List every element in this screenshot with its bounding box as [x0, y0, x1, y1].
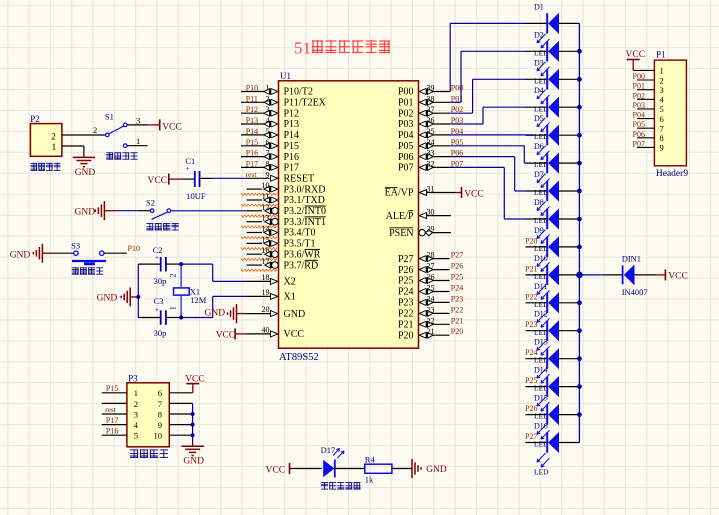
svg-text:D2: D2: [534, 30, 544, 39]
svg-text:GND: GND: [183, 457, 204, 467]
svg-text:EA: EA: [385, 188, 399, 199]
svg-text:P04: P04: [398, 130, 414, 141]
svg-text:P02: P02: [633, 91, 645, 100]
svg-text:35: 35: [427, 127, 435, 136]
svg-text:P: P: [408, 211, 414, 222]
svg-text:1k: 1k: [365, 475, 374, 485]
svg-text:P01: P01: [633, 82, 645, 91]
svg-text:24: 24: [427, 294, 435, 303]
svg-text:D10: D10: [534, 254, 548, 263]
svg-text:P21: P21: [525, 264, 537, 273]
svg-text:P10: P10: [246, 84, 258, 93]
svg-text:5: 5: [266, 127, 270, 136]
svg-text:GND: GND: [205, 309, 226, 319]
svg-text:D5: D5: [534, 114, 544, 123]
svg-text:VCC: VCC: [626, 50, 646, 60]
svg-text:18: 18: [262, 273, 270, 282]
svg-text:10: 10: [154, 431, 163, 441]
svg-text:P03: P03: [633, 101, 645, 110]
svg-text:D4: D4: [534, 86, 544, 95]
svg-text:X1: X1: [284, 292, 296, 303]
svg-text:10UF: 10UF: [186, 191, 206, 201]
svg-text:9: 9: [158, 420, 162, 430]
svg-text:1: 1: [660, 66, 664, 76]
svg-text:D3: D3: [534, 58, 544, 67]
svg-text:IN4007: IN4007: [622, 287, 648, 297]
svg-text:D1: D1: [534, 2, 544, 11]
svg-text:P23: P23: [398, 298, 414, 309]
svg-text:P24: P24: [451, 284, 463, 293]
svg-text:P25: P25: [525, 376, 537, 385]
svg-text:RESET: RESET: [284, 174, 315, 185]
svg-text:20: 20: [262, 305, 270, 314]
svg-text:P13: P13: [284, 119, 300, 130]
svg-text:39: 39: [427, 84, 435, 93]
svg-text:8: 8: [266, 159, 270, 168]
svg-text:P07: P07: [398, 163, 414, 174]
svg-text:P02: P02: [398, 108, 414, 119]
svg-text:33: 33: [427, 149, 435, 158]
svg-text:22: 22: [427, 316, 435, 325]
svg-text:4: 4: [134, 420, 139, 430]
svg-text:P10/T2: P10/T2: [284, 87, 313, 98]
svg-text:D6: D6: [534, 142, 544, 151]
svg-text:P26: P26: [451, 262, 463, 271]
svg-text:P3.2/: P3.2/: [284, 206, 305, 217]
svg-text:GND: GND: [97, 294, 118, 304]
svg-text:P17: P17: [106, 416, 118, 425]
svg-text:3: 3: [660, 85, 664, 95]
svg-text:VCC: VCC: [464, 189, 484, 199]
svg-text:D17: D17: [321, 445, 336, 455]
svg-text:P2: P2: [30, 114, 40, 124]
svg-text:D14: D14: [534, 366, 548, 375]
svg-text:VCC: VCC: [162, 122, 182, 132]
svg-text:P22: P22: [525, 292, 537, 301]
svg-text:12M: 12M: [190, 295, 207, 305]
svg-text:P17: P17: [246, 159, 258, 168]
svg-text:P16: P16: [246, 149, 258, 158]
svg-text:31: 31: [427, 185, 435, 194]
svg-text:21: 21: [427, 327, 435, 336]
svg-text:U1: U1: [280, 71, 291, 81]
svg-text:S2: S2: [146, 198, 155, 208]
svg-text:P20: P20: [525, 236, 537, 245]
svg-text:2: 2: [51, 132, 56, 142]
svg-text:7: 7: [660, 124, 664, 134]
svg-text:P27: P27: [451, 251, 463, 260]
svg-text:27: 27: [427, 262, 435, 271]
svg-text:GND: GND: [284, 309, 306, 320]
svg-text:P3.0/RXD: P3.0/RXD: [284, 184, 326, 195]
svg-text:28: 28: [427, 251, 435, 260]
svg-text:D12: D12: [534, 310, 548, 319]
svg-text:P23: P23: [525, 320, 537, 329]
svg-text:DIN1: DIN1: [622, 253, 641, 263]
svg-text:32: 32: [427, 159, 435, 168]
svg-text:P10: P10: [128, 244, 140, 253]
svg-text:P3.5/T1: P3.5/T1: [284, 239, 316, 250]
svg-text:6: 6: [266, 138, 270, 147]
svg-text:6: 6: [660, 114, 664, 124]
svg-text:30p: 30p: [154, 328, 167, 338]
svg-text:25: 25: [427, 284, 435, 293]
svg-text:D16: D16: [534, 422, 548, 431]
svg-text:P14: P14: [246, 127, 258, 136]
svg-text:9: 9: [660, 143, 664, 153]
svg-text:10: 10: [262, 181, 270, 190]
svg-text:P21: P21: [451, 316, 463, 325]
svg-text:D7: D7: [534, 170, 544, 179]
svg-text:30p: 30p: [154, 276, 167, 286]
svg-text:3: 3: [136, 115, 140, 125]
svg-text:P23: P23: [451, 294, 463, 303]
svg-text:ALE/: ALE/: [386, 211, 408, 222]
svg-text:14: 14: [262, 225, 270, 234]
svg-text:+: +: [155, 306, 159, 314]
svg-text:P17: P17: [284, 163, 300, 174]
svg-text:2: 2: [134, 399, 138, 409]
svg-text:51: 51: [294, 39, 311, 58]
svg-text:11: 11: [262, 192, 270, 201]
svg-text:VCC: VCC: [668, 272, 688, 282]
svg-text:P3.3/: P3.3/: [284, 217, 305, 228]
svg-text:P27: P27: [525, 432, 537, 441]
svg-text:rest: rest: [105, 405, 117, 414]
svg-text:GND: GND: [426, 465, 447, 475]
svg-text:P03: P03: [398, 119, 414, 130]
svg-text:INT1: INT1: [304, 217, 326, 228]
svg-text:P00: P00: [398, 87, 414, 98]
svg-text:AT89S52: AT89S52: [279, 352, 319, 363]
svg-text:P27: P27: [398, 254, 414, 265]
svg-text:D8: D8: [534, 198, 544, 207]
svg-text:D13: D13: [534, 338, 548, 347]
svg-text:+: +: [186, 165, 190, 173]
svg-text:5: 5: [134, 431, 138, 441]
svg-text:VCC: VCC: [266, 465, 286, 475]
svg-text:1: 1: [52, 142, 57, 152]
svg-text:19: 19: [262, 288, 270, 297]
svg-text:9: 9: [266, 170, 270, 179]
svg-text:GND: GND: [75, 208, 96, 218]
svg-text:VCC: VCC: [147, 176, 167, 186]
svg-text:1: 1: [169, 306, 178, 310]
svg-text:P25: P25: [451, 273, 463, 282]
svg-text:23: 23: [427, 305, 435, 314]
svg-text:2: 2: [169, 274, 178, 278]
svg-text:8: 8: [660, 133, 664, 143]
svg-text:15: 15: [262, 235, 270, 244]
svg-text:D11: D11: [534, 282, 547, 291]
svg-text:C3: C3: [154, 296, 164, 306]
svg-text:+: +: [155, 254, 159, 262]
svg-text:P22: P22: [451, 305, 463, 314]
svg-text:P15: P15: [106, 384, 118, 393]
svg-text:P05: P05: [398, 141, 414, 152]
svg-text:36: 36: [427, 116, 435, 125]
svg-text:LED: LED: [534, 468, 549, 477]
svg-text:P06: P06: [633, 130, 645, 139]
svg-text:P3.7/: P3.7/: [284, 260, 305, 271]
svg-text:S1: S1: [105, 111, 114, 121]
svg-text:D9: D9: [534, 226, 544, 235]
svg-text:38: 38: [427, 94, 435, 103]
svg-text:INT0: INT0: [304, 206, 326, 217]
svg-text:P05: P05: [633, 120, 645, 129]
svg-text:WR: WR: [304, 249, 320, 260]
svg-text:D15: D15: [534, 394, 548, 403]
svg-text:37: 37: [427, 105, 435, 114]
svg-text:P20: P20: [398, 330, 414, 341]
svg-text:16: 16: [262, 246, 270, 255]
svg-text:RD: RD: [304, 260, 318, 271]
svg-text:P3.4/T0: P3.4/T0: [284, 228, 316, 239]
svg-text:P11/T2EX: P11/T2EX: [284, 98, 327, 109]
svg-text:R4: R4: [365, 454, 376, 464]
svg-text:1: 1: [136, 136, 140, 146]
svg-text:3: 3: [266, 105, 270, 114]
svg-text:P04: P04: [633, 111, 645, 120]
svg-text:P3: P3: [128, 374, 138, 384]
svg-text:13: 13: [262, 214, 270, 223]
svg-text:P22: P22: [398, 309, 414, 320]
svg-text:P1: P1: [656, 49, 666, 59]
svg-text:P15: P15: [246, 138, 258, 147]
svg-text:PSEN: PSEN: [389, 228, 413, 239]
svg-text:P24: P24: [398, 287, 414, 298]
svg-text:P15: P15: [284, 141, 300, 152]
svg-text:P11: P11: [246, 94, 258, 103]
svg-text:P16: P16: [284, 152, 300, 163]
svg-text:8: 8: [158, 409, 162, 419]
svg-text:P26: P26: [398, 265, 414, 276]
svg-text:4: 4: [266, 116, 270, 125]
svg-text:30: 30: [427, 208, 435, 217]
svg-text:P07: P07: [633, 139, 645, 148]
svg-text:/VP: /VP: [398, 188, 414, 199]
svg-text:1: 1: [266, 84, 270, 93]
svg-text:P3.6/: P3.6/: [284, 249, 305, 260]
svg-text:26: 26: [427, 273, 435, 282]
svg-text:P01: P01: [398, 98, 414, 109]
svg-text:P20: P20: [451, 327, 463, 336]
svg-text:Header9: Header9: [656, 169, 688, 179]
svg-text:P24: P24: [525, 348, 537, 357]
svg-text:6: 6: [158, 388, 162, 398]
svg-text:P12: P12: [284, 108, 300, 119]
svg-text:P12: P12: [246, 105, 258, 114]
svg-text:GND: GND: [75, 168, 96, 178]
svg-text:P06: P06: [398, 152, 414, 163]
svg-text:VCC: VCC: [284, 329, 305, 340]
svg-text:2: 2: [93, 125, 97, 135]
svg-text:17: 17: [262, 257, 270, 266]
svg-text:P16: P16: [106, 427, 118, 436]
svg-text:GND: GND: [10, 250, 31, 260]
svg-text:VCC: VCC: [216, 331, 236, 341]
svg-text:40: 40: [262, 325, 270, 334]
svg-text:1: 1: [134, 388, 138, 398]
svg-text:P3.1/TXD: P3.1/TXD: [284, 195, 325, 206]
svg-text:3: 3: [134, 409, 138, 419]
svg-text:34: 34: [427, 138, 435, 147]
svg-text:29: 29: [427, 225, 435, 234]
svg-text:12: 12: [262, 203, 270, 212]
svg-text:7: 7: [158, 399, 162, 409]
svg-text:P21: P21: [398, 320, 414, 331]
svg-text:rest: rest: [246, 170, 258, 179]
svg-text:P13: P13: [246, 116, 258, 125]
svg-text:S3: S3: [71, 240, 80, 250]
svg-text:P00: P00: [633, 72, 645, 81]
svg-text:7: 7: [266, 149, 270, 158]
svg-text:P14: P14: [284, 130, 300, 141]
svg-text:5: 5: [660, 104, 664, 114]
svg-text:2: 2: [660, 75, 664, 85]
svg-text:X2: X2: [284, 277, 296, 288]
svg-text:P25: P25: [398, 276, 414, 287]
svg-text:P26: P26: [525, 404, 537, 413]
svg-text:2: 2: [266, 94, 270, 103]
